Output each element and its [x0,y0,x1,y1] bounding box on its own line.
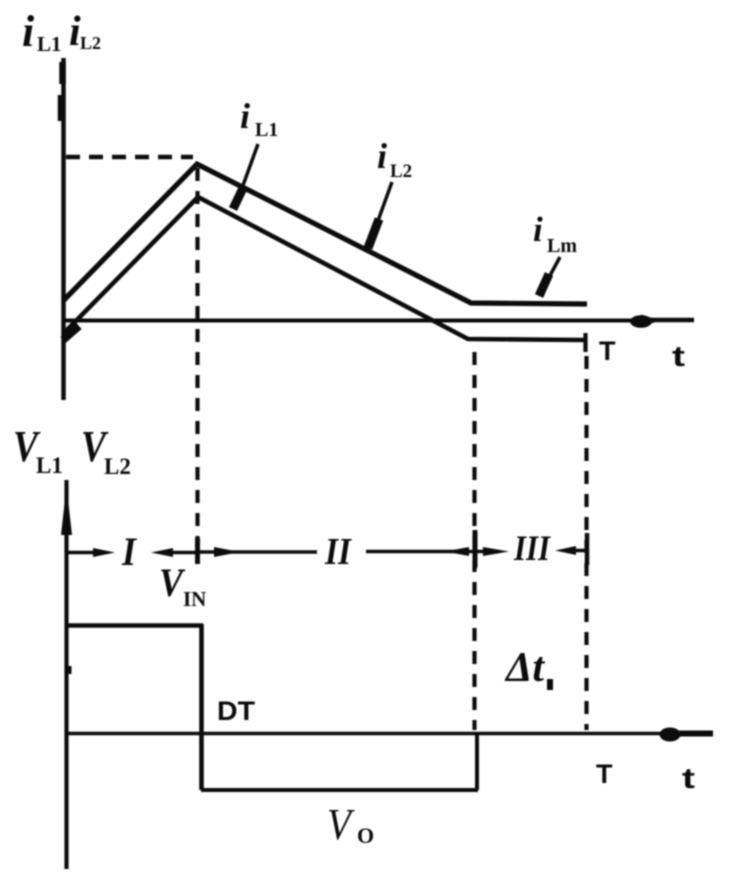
end tick at T (top plot) [583,333,587,352]
i_L2 current waveform (lower triangle) [63,197,584,340]
svg-text:Δt: Δt [504,645,545,691]
svg-text:L2: L2 [104,454,131,479]
region I right-pointing arrowhead [93,548,115,557]
bottom t-axis arrowhead blob [660,728,681,742]
svg-text:III: III [513,528,552,568]
svg-text:L1: L1 [255,119,278,141]
region II right-pointing arrowhead [214,547,240,557]
bottom t-axis [66,732,668,736]
label i_L1 (axis label, top-left) [22,7,62,56]
label i_L2 (axis label, top-left) [69,9,101,55]
svg-text:T: T [596,759,613,789]
crossing bar at marker row (x=586) [585,533,590,565]
top t-axis thick tail [642,318,694,323]
top plot y-axis [61,58,66,400]
svg-text:i: i [377,136,387,176]
region I left-pointing arrowhead [151,548,173,557]
svg-text:i: i [22,7,35,56]
bottom plot y-axis [64,480,68,869]
bottom t-axis thick tail [678,731,713,737]
dashed vertical at T (x=586) [584,356,588,730]
start wedge blob on i_L2 [63,326,79,340]
region II dimension line (right) [366,550,474,554]
bottom plot y-axis scan blob [65,666,72,674]
label delta-t_s [504,645,553,691]
label V_L1 (bottom axis label) [13,422,63,478]
leader arrowhead i_L2 [368,219,379,248]
svg-text:L2: L2 [390,161,412,182]
region III dimension line (left) [477,550,498,554]
svg-text:L1: L1 [36,453,63,478]
region I dimension line (right) [166,551,197,555]
leader arrowhead i_Lm [539,274,549,296]
svg-text:t: t [682,763,695,795]
V_O low level segment [201,788,478,792]
svg-text:L2: L2 [80,33,101,53]
step down at DT [199,624,204,790]
label V_L2 (bottom axis label) [81,422,131,479]
region III dimension line (right) [570,549,586,553]
region I dimension line (left) [66,551,100,555]
region II left-pointing arrowhead [445,547,469,556]
svg-text:i: i [240,96,250,136]
peak level dashed line [66,155,193,160]
y-axis scan blob 2 [58,95,66,121]
dashed vertical at end of conduction (x=474) [472,352,476,730]
region III left-pointing arrowhead [555,546,576,555]
svg-text:IN: IN [183,587,206,611]
y-axis up arrow [61,486,72,535]
svg-text:I: I [121,529,137,574]
svg-text:DT: DT [217,696,256,726]
label V_O [327,800,374,849]
leader i_Lm label [533,210,577,257]
dashed vertical at DT through both plots [195,168,199,564]
svg-text:V: V [159,560,186,605]
top t-axis arrowhead blob [630,315,652,328]
label V_IN [159,560,206,611]
svg-text:T: T [599,336,616,366]
top t-axis [63,319,640,323]
leader i_L1 label [240,96,278,141]
i_L1 current waveform (upper triangle) [63,164,587,304]
svg-text:II: II [324,531,352,573]
leader arrowhead i_L1 [233,188,243,209]
step up at end of region II [475,732,479,790]
region III right-pointing arrowhead [483,547,509,556]
leader line i_Lm [540,257,560,294]
svg-text:O: O [357,823,374,848]
crossing bar at marker row (x=474) [473,530,478,568]
svg-text:i: i [533,210,543,249]
y-axis scan blob 1 [59,62,66,84]
V_IN high level segment [66,623,203,628]
svg-text:L1: L1 [37,32,62,56]
svg-text:Lm: Lm [547,235,577,257]
region II dimension line (left) [198,550,317,554]
dashed vertical thicker crossing at marker row [195,538,200,564]
leader i_L2 label [377,136,412,182]
leader line i_L1 [237,144,258,202]
leader line i_L2 [371,182,392,240]
svg-text:t: t [672,341,685,373]
